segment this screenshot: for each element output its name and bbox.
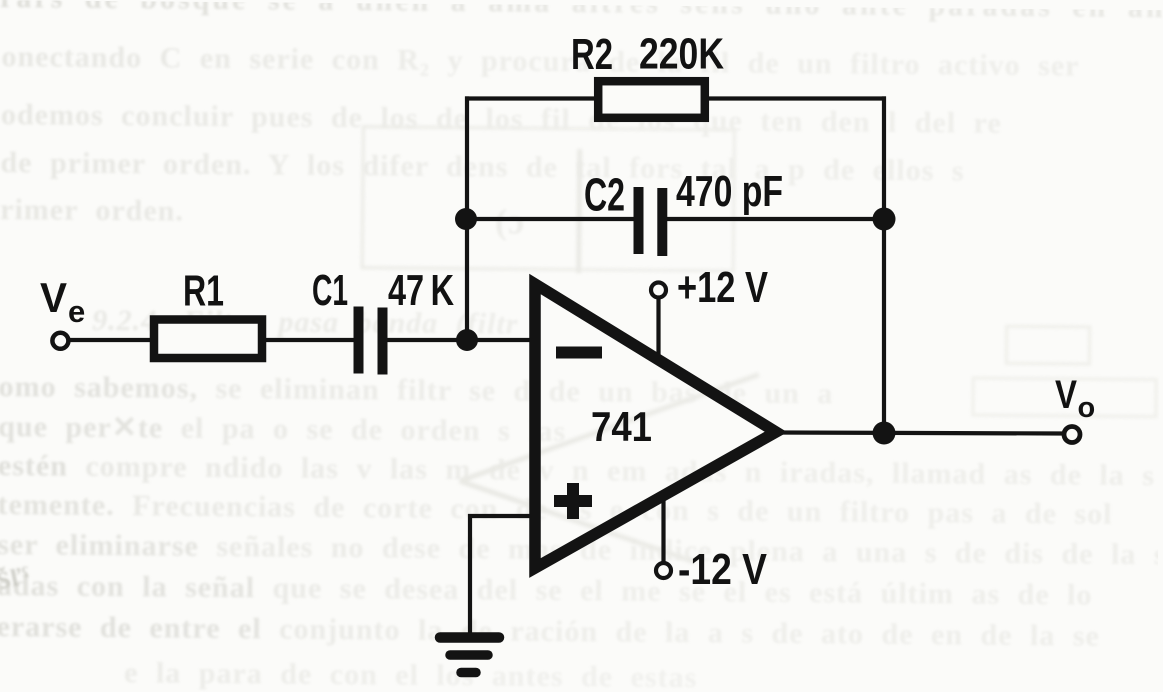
ghost line 10 xyxy=(0,528,1163,572)
ghost box right top xyxy=(971,376,1157,418)
ghost line 3 xyxy=(0,146,964,188)
svg-text:C1: C1 xyxy=(312,266,348,315)
ghost box center top xyxy=(361,125,736,272)
ghost capacitor mark xyxy=(495,200,525,242)
ghost margin mark xyxy=(0,563,33,596)
op-amp U1 741 triangle xyxy=(535,284,776,568)
node D junction dot (C2 left rail) xyxy=(455,208,477,230)
node B junction dot (C2 right rail) xyxy=(873,208,896,231)
resistor R1 xyxy=(154,320,262,359)
terminal +12V xyxy=(651,283,666,298)
ghost line 2 xyxy=(1,98,1002,141)
ghost heading 9.2.4 xyxy=(92,304,518,342)
terminal -12V xyxy=(656,563,671,578)
wire top rail left to R2 xyxy=(465,96,596,100)
wire right rail down to output xyxy=(882,96,886,434)
ghost line 1 xyxy=(1,40,1079,83)
node C junction dot (output) xyxy=(873,422,896,445)
wire node A up to top rail xyxy=(465,96,469,340)
ghost top strip xyxy=(0,0,1163,29)
ghost line 9 xyxy=(0,488,1113,532)
svg-text:47 K: 47 K xyxy=(388,266,454,315)
svg-text:o: o xyxy=(1078,392,1096,424)
wire non-inverting input down to ground xyxy=(468,514,472,634)
svg-text:V: V xyxy=(1055,373,1077,417)
ground xyxy=(440,638,499,673)
ghost line 8 xyxy=(0,449,1155,493)
wire C1 to op-amp inverting input xyxy=(386,338,533,342)
ghost line 11 xyxy=(0,569,1093,613)
wire op-amp output to Vo xyxy=(775,433,1063,434)
ghost line 4 xyxy=(0,193,184,229)
svg-text:+12 V: +12 V xyxy=(677,263,769,312)
svg-text:R2: R2 xyxy=(571,30,613,79)
wire C2 rail left xyxy=(467,217,635,221)
wire R2 to right rail xyxy=(707,96,886,100)
wire -12V supply xyxy=(661,494,665,562)
svg-text:470 pF: 470 pF xyxy=(676,167,783,216)
svg-text:e: e xyxy=(68,294,85,329)
ghost line 7 xyxy=(0,409,566,449)
wire R1 to C1 xyxy=(264,338,355,342)
resistor R2 xyxy=(598,81,705,118)
wire input Ve to R1 xyxy=(70,338,152,342)
svg-text:220K: 220K xyxy=(639,30,724,79)
op-amp non-inverting input plus sign xyxy=(554,483,592,519)
terminal Vo xyxy=(1064,427,1080,443)
ghost box right mid xyxy=(1005,325,1091,366)
wire non-inverting input horizontal xyxy=(468,514,535,518)
svg-text:-12 V: -12 V xyxy=(678,545,768,594)
ghost line 12 xyxy=(0,610,1100,654)
terminal Ve xyxy=(52,333,68,349)
svg-text:C2: C2 xyxy=(584,169,625,221)
capacitor C1 plates xyxy=(359,307,383,375)
svg-text:741: 741 xyxy=(591,403,652,450)
node A junction dot xyxy=(456,329,478,351)
ghost line 13 xyxy=(124,656,697,692)
ghost line 6 xyxy=(0,370,833,411)
wire +12V supply xyxy=(656,298,660,363)
op-amp inverting input minus sign xyxy=(556,347,602,359)
capacitor C2 plates xyxy=(639,187,663,256)
svg-text:R1: R1 xyxy=(183,267,224,316)
svg-text:V: V xyxy=(40,274,67,321)
wire C2 rail right xyxy=(665,217,884,221)
